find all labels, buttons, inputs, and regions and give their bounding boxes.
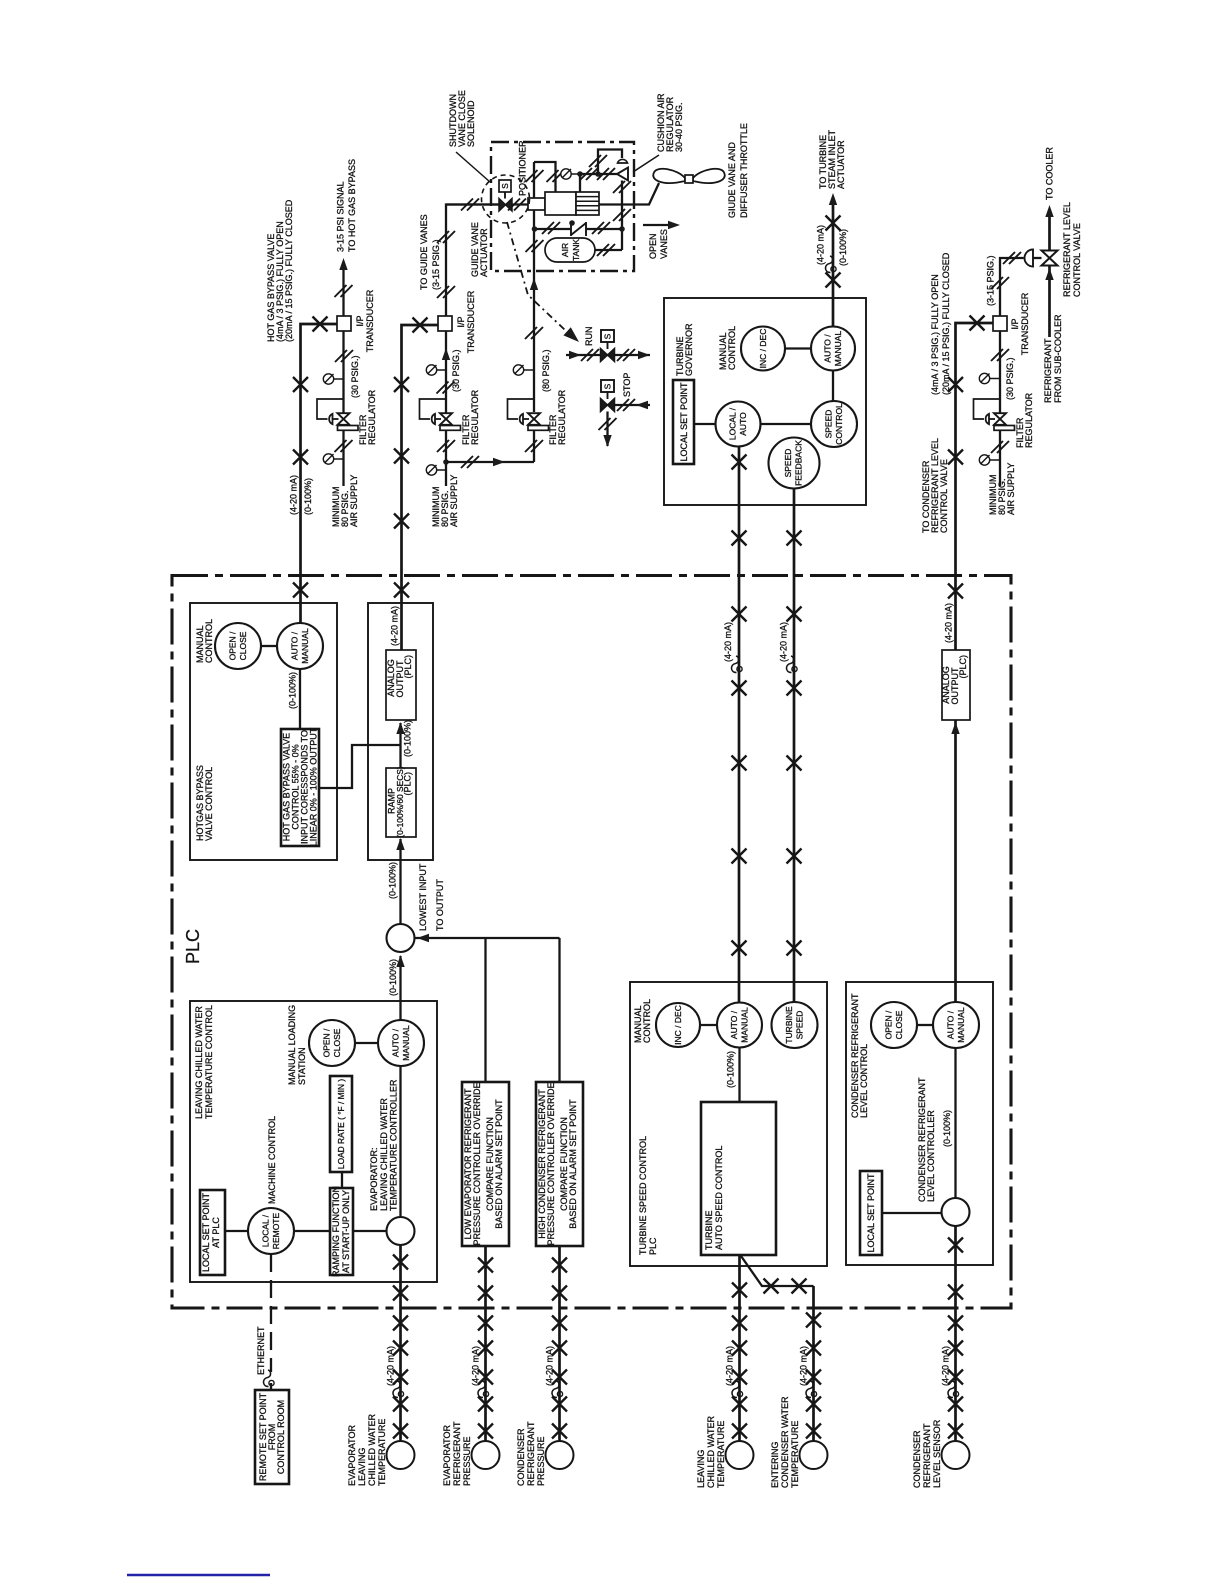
svg-text:TEMPERATURE: TEMPERATURE bbox=[716, 1421, 726, 1488]
svg-text:OPEN /: OPEN / bbox=[322, 1028, 332, 1057]
svg-text:STOP: STOP bbox=[622, 373, 632, 397]
svg-text:OPEN /: OPEN / bbox=[884, 1010, 894, 1039]
svg-text:MANUAL: MANUAL bbox=[956, 1007, 966, 1043]
svg-text:PRESSURE CONTROLLER OVERRIDE: PRESSURE CONTROLLER OVERRIDE bbox=[546, 1082, 556, 1245]
svg-text:TEMPERATURE: TEMPERATURE bbox=[790, 1421, 800, 1488]
svg-text:REFRIGERANT: REFRIGERANT bbox=[1043, 338, 1053, 403]
svg-text:PLC: PLC bbox=[183, 929, 203, 964]
svg-text:REGULATOR: REGULATOR bbox=[367, 389, 377, 445]
svg-text:S: S bbox=[603, 333, 613, 339]
svg-text:(0-100%): (0-100%) bbox=[942, 1110, 952, 1147]
svg-text:CONDENSER: CONDENSER bbox=[516, 1428, 526, 1486]
svg-text:LINEAR 0% - 100% OUTPUT: LINEAR 0% - 100% OUTPUT bbox=[309, 727, 319, 846]
svg-text:PRESSURE: PRESSURE bbox=[462, 1436, 472, 1486]
svg-text:(PLC): (PLC) bbox=[403, 772, 413, 796]
svg-text:INC / DEC: INC / DEC bbox=[758, 329, 768, 369]
svg-text:LOCAL /: LOCAL / bbox=[728, 407, 738, 440]
svg-text:TRANSDUCER: TRANSDUCER bbox=[466, 290, 476, 353]
svg-text:MANUAL: MANUAL bbox=[401, 1025, 411, 1061]
svg-text:CLOSE: CLOSE bbox=[894, 1010, 904, 1039]
svg-text:(0-100%): (0-100%) bbox=[726, 1051, 736, 1088]
svg-text:(4-20 mA): (4-20 mA) bbox=[941, 1346, 951, 1386]
svg-text:TANK: TANK bbox=[571, 239, 581, 261]
svg-text:MANUAL LOADING: MANUAL LOADING bbox=[287, 1005, 297, 1085]
svg-text:LEAVING: LEAVING bbox=[696, 1450, 706, 1488]
svg-text:(20mA / 15 PSIG.) FULLY CLOSED: (20mA / 15 PSIG.) FULLY CLOSED bbox=[284, 199, 294, 342]
svg-text:LEVEL SENSOR: LEVEL SENSOR bbox=[932, 1419, 942, 1488]
svg-text:REFRIGERANT: REFRIGERANT bbox=[922, 1423, 932, 1488]
svg-text:CLOSE: CLOSE bbox=[238, 631, 248, 660]
svg-text:REFRIGERANT: REFRIGERANT bbox=[526, 1421, 536, 1486]
svg-text:AUTO /: AUTO / bbox=[391, 1028, 401, 1057]
svg-text:SOLENOID: SOLENOID bbox=[466, 100, 476, 147]
svg-text:VALVE CONTROL: VALVE CONTROL bbox=[204, 767, 214, 841]
svg-text:TO COOLER: TO COOLER bbox=[1045, 147, 1055, 200]
svg-text:LOCAL SET POINT: LOCAL SET POINT bbox=[201, 1192, 211, 1272]
svg-text:REGULATOR: REGULATOR bbox=[1024, 392, 1034, 448]
svg-text:CONTROL ROOM: CONTROL ROOM bbox=[276, 1400, 286, 1474]
svg-text:(4-20 mA): (4-20 mA) bbox=[725, 1346, 735, 1386]
svg-text:TRANSDUCER: TRANSDUCER bbox=[365, 289, 375, 352]
svg-text:TRANSDUCER: TRANSDUCER bbox=[1020, 292, 1030, 355]
svg-text:(20mA / 15 PSIG.) FULLY CLOSED: (20mA / 15 PSIG.) FULLY CLOSED bbox=[941, 252, 951, 395]
svg-text:EVAPORATOR:: EVAPORATOR: bbox=[369, 1147, 379, 1211]
svg-text:S: S bbox=[603, 383, 613, 389]
svg-text:MANUAL: MANUAL bbox=[740, 1007, 750, 1043]
svg-text:REMOTE: REMOTE bbox=[271, 1212, 281, 1249]
svg-text:(4-20 mA): (4-20 mA) bbox=[471, 1346, 481, 1386]
svg-text:TURBINE: TURBINE bbox=[704, 1210, 714, 1250]
svg-text:CONTROL: CONTROL bbox=[204, 619, 214, 663]
svg-text:PRESSURE CONTROLLER OVERRIDE: PRESSURE CONTROLLER OVERRIDE bbox=[472, 1082, 482, 1245]
svg-text:CONTROL: CONTROL bbox=[642, 999, 652, 1043]
svg-text:(4-20 mA): (4-20 mA) bbox=[779, 622, 789, 662]
svg-text:PLC: PLC bbox=[648, 1237, 658, 1255]
svg-text:AIR SUPPLY: AIR SUPPLY bbox=[349, 475, 359, 527]
svg-text:ACTUATOR: ACTUATOR bbox=[479, 228, 489, 277]
svg-text:PRESSURE: PRESSURE bbox=[536, 1436, 546, 1486]
svg-text:LEAVING: LEAVING bbox=[357, 1448, 367, 1486]
svg-text:AIR: AIR bbox=[560, 243, 570, 257]
svg-text:(0-100%): (0-100%) bbox=[838, 229, 848, 266]
svg-text:AT START-UP ONLY: AT START-UP ONLY bbox=[341, 1190, 351, 1273]
svg-text:CONDENSER: CONDENSER bbox=[912, 1430, 922, 1488]
svg-text:GOVERNOR: GOVERNOR bbox=[684, 323, 694, 376]
svg-text:SPEED: SPEED bbox=[795, 1011, 805, 1040]
svg-text:(4-20 mA): (4-20 mA) bbox=[799, 1346, 809, 1386]
svg-text:3-15 PSI SIGNAL: 3-15 PSI SIGNAL bbox=[336, 181, 346, 252]
svg-text:AIR SUPPLY: AIR SUPPLY bbox=[1006, 463, 1016, 515]
svg-text:AIR SUPPLY: AIR SUPPLY bbox=[449, 475, 459, 527]
svg-text:BASED ON ALARM SET POINT: BASED ON ALARM SET POINT bbox=[494, 1099, 504, 1229]
svg-text:(PLC): (PLC) bbox=[403, 655, 413, 679]
svg-text:LEAVING CHILLED WATER: LEAVING CHILLED WATER bbox=[194, 1006, 204, 1119]
svg-text:(80 PSIG.): (80 PSIG.) bbox=[541, 349, 551, 392]
svg-text:TO OUTPUT: TO OUTPUT bbox=[435, 879, 445, 931]
svg-text:MANUAL: MANUAL bbox=[300, 628, 310, 664]
svg-text:I/P: I/P bbox=[1010, 318, 1020, 329]
svg-text:LOCAL SET POINT: LOCAL SET POINT bbox=[679, 382, 689, 462]
svg-text:(3-15 PSIG.): (3-15 PSIG.) bbox=[986, 255, 996, 306]
svg-text:MACHINE CONTROL: MACHINE CONTROL bbox=[267, 1116, 277, 1204]
svg-text:SPEED: SPEED bbox=[824, 410, 834, 439]
svg-text:(4-20 mA): (4-20 mA) bbox=[289, 475, 299, 515]
svg-text:AUTO /: AUTO / bbox=[823, 334, 833, 363]
svg-text:RAMPING FUNCTION: RAMPING FUNCTION bbox=[331, 1186, 341, 1277]
svg-text:LEVEL CONTROL: LEVEL CONTROL bbox=[859, 1044, 869, 1118]
svg-text:POSITIONER: POSITIONER bbox=[518, 140, 528, 196]
svg-text:TURBINE SPEED CONTROL: TURBINE SPEED CONTROL bbox=[638, 1136, 648, 1255]
svg-text:LOCAL SET POINT: LOCAL SET POINT bbox=[866, 1173, 876, 1253]
svg-text:(30 PSIG.): (30 PSIG.) bbox=[350, 355, 360, 398]
svg-text:AT PLC: AT PLC bbox=[211, 1217, 221, 1248]
svg-text:RUN: RUN bbox=[584, 327, 594, 347]
svg-text:SPEED: SPEED bbox=[783, 449, 793, 478]
svg-text:30-40 PSIG.: 30-40 PSIG. bbox=[674, 102, 684, 152]
svg-text:EVAPORATOR: EVAPORATOR bbox=[347, 1424, 357, 1486]
svg-text:STATION: STATION bbox=[297, 1047, 307, 1085]
svg-text:AUTO /: AUTO / bbox=[290, 631, 300, 660]
svg-text:ETHERNET: ETHERNET bbox=[256, 1326, 266, 1375]
svg-text:(4-20 mA): (4-20 mA) bbox=[944, 603, 954, 643]
svg-text:(4-20 mA): (4-20 mA) bbox=[816, 225, 826, 265]
svg-text:BASED ON ALARM SET POINT: BASED ON ALARM SET POINT bbox=[568, 1099, 578, 1229]
svg-text:TEMPERATURE CONTROL: TEMPERATURE CONTROL bbox=[204, 1005, 214, 1119]
svg-text:(30 PSIG.): (30 PSIG.) bbox=[1005, 357, 1015, 400]
svg-text:I/P: I/P bbox=[355, 315, 365, 326]
svg-text:CONTROL: CONTROL bbox=[727, 326, 737, 370]
svg-text:REGULATOR: REGULATOR bbox=[470, 389, 480, 445]
svg-text:AUTO /: AUTO / bbox=[729, 1010, 739, 1039]
svg-text:VANES: VANES bbox=[659, 229, 669, 259]
svg-text:(4-20 mA): (4-20 mA) bbox=[390, 606, 400, 646]
svg-text:CONTROL VALVE: CONTROL VALVE bbox=[1072, 223, 1082, 297]
svg-text:TURBINE: TURBINE bbox=[784, 1006, 794, 1044]
svg-text:AUTO SPEED CONTROL: AUTO SPEED CONTROL bbox=[714, 1146, 724, 1250]
svg-text:EVAPORATOR: EVAPORATOR bbox=[442, 1424, 452, 1486]
svg-text:REFRIGERANT: REFRIGERANT bbox=[452, 1421, 462, 1486]
svg-text:LOWEST INPUT: LOWEST INPUT bbox=[418, 863, 428, 931]
svg-text:OPEN /: OPEN / bbox=[228, 631, 238, 660]
svg-text:ACTUATOR: ACTUATOR bbox=[836, 140, 846, 189]
svg-text:GIUDE VANE AND: GIUDE VANE AND bbox=[727, 142, 737, 218]
svg-text:I/P: I/P bbox=[456, 316, 466, 327]
svg-text:LOCAL /: LOCAL / bbox=[261, 1214, 271, 1247]
svg-text:CONTROL VALVE: CONTROL VALVE bbox=[939, 459, 949, 533]
svg-text:(PLC): (PLC) bbox=[958, 655, 968, 679]
svg-text:TO HOT GAS BYPASS: TO HOT GAS BYPASS bbox=[347, 159, 357, 252]
svg-text:(0-100%): (0-100%) bbox=[288, 672, 298, 709]
svg-text:(4-20 mA): (4-20 mA) bbox=[386, 1346, 396, 1386]
svg-text:(0-100%): (0-100%) bbox=[303, 478, 313, 515]
svg-text:LOAD RATE ( °F / MIN ): LOAD RATE ( °F / MIN ) bbox=[336, 1079, 346, 1169]
svg-text:CHILLED WATER: CHILLED WATER bbox=[706, 1415, 716, 1488]
svg-text:TO GUIDE VANES: TO GUIDE VANES bbox=[419, 214, 429, 290]
svg-text:(0-100%): (0-100%) bbox=[403, 720, 413, 757]
svg-text:CHILLED WATER: CHILLED WATER bbox=[367, 1413, 377, 1486]
svg-text:(0-100%): (0-100%) bbox=[388, 862, 398, 899]
svg-text:TEMPERATURE: TEMPERATURE bbox=[377, 1419, 387, 1486]
svg-text:(4-20 mA): (4-20 mA) bbox=[723, 622, 733, 662]
svg-text:(30 PSIG.): (30 PSIG.) bbox=[451, 349, 461, 392]
svg-text:AUTO /: AUTO / bbox=[946, 1010, 956, 1039]
svg-text:(3-15 PSIG.): (3-15 PSIG.) bbox=[431, 239, 441, 290]
svg-text:(0-100%): (0-100%) bbox=[388, 959, 398, 996]
svg-text:REFRIGERANT LEVEL: REFRIGERANT LEVEL bbox=[1062, 202, 1072, 297]
svg-text:AUTO: AUTO bbox=[738, 412, 748, 436]
svg-text:LEAVING CHILLED WATER: LEAVING CHILLED WATER bbox=[379, 1098, 389, 1211]
svg-text:DIFFUSER THROTTLE: DIFFUSER THROTTLE bbox=[739, 123, 749, 218]
svg-text:ENTERING: ENTERING bbox=[770, 1441, 780, 1488]
svg-text:CLOSE: CLOSE bbox=[332, 1028, 342, 1057]
svg-text:FROM SUB-COOLER: FROM SUB-COOLER bbox=[1053, 314, 1063, 403]
svg-text:OPEN: OPEN bbox=[648, 233, 658, 259]
svg-text:S: S bbox=[500, 183, 510, 189]
svg-text:CONDENSER WATER: CONDENSER WATER bbox=[780, 1396, 790, 1488]
svg-text:REGULATOR: REGULATOR bbox=[557, 389, 567, 445]
svg-text:FEEDBACK: FEEDBACK bbox=[794, 440, 804, 486]
svg-text:MANUAL: MANUAL bbox=[833, 331, 843, 367]
svg-text:LEVEL CONTROLLER: LEVEL CONTROLLER bbox=[926, 1110, 936, 1202]
svg-text:TEMPERATURE CONTROLLER: TEMPERATURE CONTROLLER bbox=[389, 1079, 399, 1211]
svg-text:(4-20 mA): (4-20 mA) bbox=[545, 1346, 555, 1386]
svg-text:CONTROL: CONTROL bbox=[834, 403, 844, 445]
svg-text:INC / DEC: INC / DEC bbox=[673, 1005, 683, 1045]
svg-text:(4mA / 3 PSIG.) FULLY OPEN: (4mA / 3 PSIG.) FULLY OPEN bbox=[930, 274, 940, 395]
